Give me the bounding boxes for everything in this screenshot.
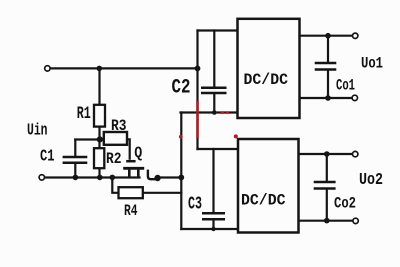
node dot A (R1/R2/R3/C1) (97, 136, 103, 142)
node dot Co2 bottom (324, 218, 330, 224)
svg-text:Q: Q (134, 144, 142, 162)
wire R2 top lead (98, 140, 100, 149)
svg-text:Uo2: Uo2 (359, 170, 383, 189)
red annotation dash 2 (226, 111, 229, 114)
terminal Uo1 minus (352, 95, 357, 100)
svg-text:R3: R3 (111, 117, 127, 135)
svg-text:R1: R1 (77, 104, 91, 124)
wire bottom rail left (44, 176, 139, 178)
wire C3 top lead (212, 149, 214, 213)
resistor R1 (94, 105, 105, 127)
wire Uo1 negative output (300, 97, 353, 99)
resistor R2 (94, 148, 104, 168)
node dot C3 bottom (211, 227, 215, 231)
wire node A horizontal (75, 138, 103, 140)
node dot rail-lineB (178, 175, 184, 181)
node dot C1 bottom (73, 175, 79, 181)
wire R1 top lead (98, 68, 100, 105)
wire top DC/DC bottom-left pin (181, 111, 238, 113)
wire C2 top lead (213, 31, 215, 88)
wire C1 top lead (74, 140, 76, 157)
wire C1 bottom lead (74, 164, 76, 178)
svg-text:Co1: Co1 (336, 77, 355, 95)
wire Co2 top lead (326, 154, 328, 181)
svg-text:Uo1: Uo1 (361, 55, 383, 73)
capacitor C3 (202, 213, 225, 219)
transistor Q (MOSFET) (123, 139, 156, 179)
terminal input top (45, 66, 50, 71)
wire Uo2 negative output (299, 220, 354, 222)
wire C2 bottom lead (213, 94, 215, 113)
node dot R2 bottom (97, 175, 103, 181)
svg-text:Uin: Uin (27, 122, 48, 141)
wire Uo2 positive output (299, 153, 353, 155)
terminal Uo2 plus (353, 151, 358, 156)
red annotation vertical on feed column (196, 101, 199, 138)
node dot Q drain (154, 175, 160, 181)
red annotation dash 1 (221, 111, 225, 114)
wire Uo1 positive output (300, 35, 353, 37)
node dot rail-R1 (97, 66, 103, 72)
wire Co1 top lead (327, 36, 329, 62)
DC/DC converter block U1 (238, 19, 300, 118)
red annotation dot at U2 corner (234, 134, 238, 138)
wire Co1 bottom lead (327, 71, 329, 99)
svg-text:C2: C2 (172, 76, 191, 99)
svg-text:R2: R2 (106, 150, 122, 168)
wire negative column (line B) (180, 113, 182, 230)
wire R1 bottom lead (98, 126, 100, 140)
wire bottom rail right (158, 176, 182, 178)
wire top input rail (49, 67, 198, 69)
resistor R4 (119, 187, 143, 198)
svg-text:DC/DC: DC/DC (244, 71, 289, 89)
wire R4 loop left (112, 178, 118, 193)
node dot Co1 bottom (325, 95, 331, 101)
wire top DC/DC top-left pin (198, 29, 238, 31)
terminal Uo2 minus (353, 218, 358, 223)
capacitor C2 (201, 88, 227, 93)
resistor R3 (104, 132, 127, 145)
svg-text:C1: C1 (40, 147, 55, 166)
svg-text:C3: C3 (188, 195, 202, 215)
wire C3 bottom lead (212, 220, 214, 229)
node dot rail-lineA (195, 66, 201, 72)
svg-text:Co2: Co2 (334, 195, 356, 213)
node dot Co2 top (324, 151, 330, 157)
wire positive feed vertical (node A column) (196, 31, 198, 150)
svg-text:DC/DC: DC/DC (241, 192, 286, 210)
terminal Uo1 plus (353, 33, 358, 38)
capacitor C1 (63, 157, 88, 163)
wire bottom DC/DC bottom-left pin (181, 228, 238, 230)
node dot Co1 top (325, 33, 331, 39)
DC/DC converter block U2 (238, 139, 299, 233)
wire R2 bottom lead (98, 168, 100, 178)
wire Co2 bottom lead (326, 190, 328, 221)
capacitor Co1 (315, 63, 337, 70)
node dot C2 bottom (212, 110, 217, 115)
wire R4 loop right (143, 192, 182, 194)
svg-text:R4: R4 (124, 202, 138, 220)
red annotation dot on line B (179, 135, 183, 139)
wire bottom DC/DC top-left pin (198, 148, 239, 150)
node dot R4 left (110, 175, 116, 181)
terminal input bottom (39, 175, 44, 180)
capacitor Co2 (314, 182, 336, 189)
